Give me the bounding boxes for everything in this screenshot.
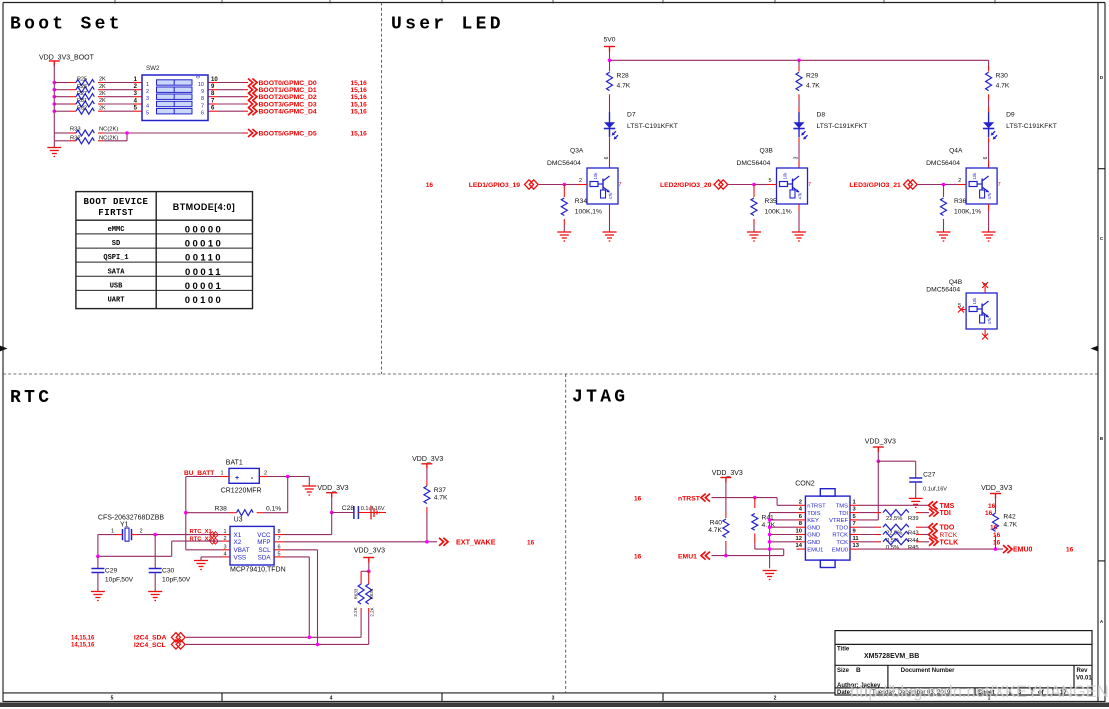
svg-text:15,16: 15,16 — [351, 130, 368, 137]
svg-text:VDD_3V3: VDD_3V3 — [712, 470, 743, 477]
svg-text:NC(2K): NC(2K) — [99, 127, 118, 133]
svg-text:10pF,50V: 10pF,50V — [162, 577, 191, 584]
svg-text:I2C4_SDA: I2C4_SDA — [134, 635, 167, 642]
ground CON2 — [763, 571, 777, 580]
node EXT_WAKE junction — [425, 540, 429, 544]
no-connect X Q4B input — [958, 307, 964, 313]
svg-text:00100: 00100 — [185, 295, 223, 306]
svg-text:VDD_3V3: VDD_3V3 — [354, 548, 385, 555]
capacitor C27 0.1uf,16V — [909, 472, 947, 493]
node C29 junction — [96, 555, 100, 559]
svg-text:11: 11 — [853, 536, 860, 542]
svg-text:47k: 47k — [798, 192, 803, 200]
svg-text:2: 2 — [579, 178, 582, 184]
CON2 right pin 5 — [850, 514, 859, 520]
wire C27 to ground — [915, 482, 917, 498]
svg-text:Rev: Rev — [1077, 668, 1089, 674]
LED D9 LTST-C191KFKT — [983, 112, 997, 139]
node gnd bus pin8 — [768, 525, 772, 529]
wire R32 row left — [54, 140, 76, 142]
svg-text:R33: R33 — [70, 127, 81, 133]
wire R633 down to SDA — [360, 608, 362, 637]
resistor R31 2K — [76, 98, 106, 107]
wire boot row 5 to SW2 pin 5 — [98, 110, 142, 112]
svg-text:DMC56404: DMC56404 — [926, 287, 960, 294]
resistor R45 0,5% — [876, 539, 921, 551]
svg-text:10k: 10k — [783, 172, 788, 180]
svg-text:EXT_WAKE: EXT_WAKE — [456, 537, 496, 546]
CON2 left pin 10 — [796, 529, 806, 535]
CON2 right pin 11 — [850, 536, 859, 542]
svg-text:16: 16 — [993, 540, 1001, 547]
svg-text:7: 7 — [619, 182, 622, 188]
svg-text:2K: 2K — [99, 84, 106, 90]
svg-text:4.7K: 4.7K — [708, 527, 722, 534]
svg-text:16: 16 — [426, 182, 434, 189]
svg-text:47k: 47k — [608, 192, 613, 200]
wire 5V0 rail — [610, 59, 989, 61]
svg-text:LED1/GPIO3_19: LED1/GPIO3_19 — [469, 182, 521, 189]
battery BAT1 CR1220MFR — [220, 460, 267, 495]
CON2 left pin 6 — [797, 514, 806, 520]
port arrow TDO — [929, 523, 938, 531]
wire boot row 1 to SW2 pin 1 — [98, 82, 142, 84]
resistor R27 2K — [76, 91, 106, 100]
wire SCL right — [274, 550, 317, 645]
svg-text:1: 1 — [111, 529, 114, 535]
port arrow BOOT2/GPMC_D2 — [248, 93, 257, 101]
svg-text:TDIS: TDIS — [807, 511, 820, 517]
svg-text:LTST-C191KFKT: LTST-C191KFKT — [817, 123, 868, 130]
svg-text:2: 2 — [958, 178, 961, 184]
svg-text:6: 6 — [983, 156, 989, 159]
wire TCLK row left — [859, 541, 877, 543]
svg-text:4: 4 — [330, 696, 333, 702]
wire nTRST to CON2 pin2 — [712, 498, 797, 506]
svg-text:LED3/GPIO3_21: LED3/GPIO3_21 — [849, 182, 901, 189]
svg-text:15,16: 15,16 — [351, 87, 368, 94]
wire C29 node down — [97, 556, 99, 568]
resistor R37 4.7K — [424, 486, 448, 504]
wire Q3A emitter to ground — [609, 204, 611, 232]
wire C28 right — [358, 512, 386, 514]
node EMU0 junction — [994, 547, 998, 551]
port arrow TMS — [929, 501, 938, 509]
label D7 — [627, 112, 678, 130]
svg-text:DMC56404: DMC56404 — [926, 160, 960, 167]
wire Q4B stub top — [984, 287, 986, 294]
svg-text:EMU1: EMU1 — [678, 553, 697, 560]
svg-text:100K,1%: 100K,1% — [575, 209, 602, 216]
resistor R44 0,5% — [876, 532, 921, 544]
section divider vertical RTC/JTAG — [565, 374, 567, 693]
power VDD_3V3 (I2C pullups) — [354, 548, 385, 563]
port diamond LED2/GPIO3_20 — [714, 180, 728, 189]
node junction boot row 4 — [53, 102, 57, 106]
LED D8 LTST-C191KFKT — [793, 112, 807, 139]
svg-text:Q4A: Q4A — [949, 148, 963, 155]
wire LED2/GPIO3_20 to Q3B — [729, 184, 777, 186]
power VDD_3V3 (R40) — [712, 470, 743, 483]
svg-text:0: 0 — [194, 76, 200, 79]
node SDA junction — [308, 636, 312, 640]
svg-text:MFP: MFP — [257, 539, 270, 546]
power 5V0 — [604, 37, 616, 52]
title block — [835, 631, 1092, 695]
wire boot row 3 to SW2 pin 3 — [98, 96, 142, 98]
wire pullup tops — [361, 570, 369, 572]
wire R40 to EMU1 line — [725, 541, 727, 556]
CON2 left pin 12 — [796, 536, 806, 542]
svg-text:R28: R28 — [617, 73, 630, 80]
svg-text:Title: Title — [837, 647, 850, 653]
svg-text:15,16: 15,16 — [351, 109, 368, 116]
svg-text:R634: R634 — [369, 588, 374, 599]
svg-text:nTRST: nTRST — [807, 504, 826, 510]
node C28 junction — [330, 511, 334, 515]
border arrow right — [1091, 346, 1099, 352]
label D8 — [817, 112, 868, 130]
wire R42 to EMU0 — [995, 535, 997, 549]
svg-text:10: 10 — [796, 529, 802, 535]
wire R33 to BOOT5 — [98, 132, 248, 134]
svg-text:15,16: 15,16 — [351, 80, 368, 87]
svg-text:6: 6 — [201, 111, 204, 117]
wire VDD to R42 — [995, 499, 997, 513]
wire boot row 3 left — [54, 96, 76, 98]
CON2 right pin 3 — [850, 507, 859, 513]
ground under Q3A — [603, 232, 617, 241]
wire I2C4_SCL — [186, 643, 369, 645]
svg-text:10k: 10k — [593, 172, 598, 180]
border arrow left — [0, 346, 8, 352]
CON2 left pin 2 — [797, 499, 806, 505]
wire R29 to LED — [798, 94, 800, 112]
node nTRST/R41 junction — [753, 496, 757, 500]
svg-text:16: 16 — [1066, 547, 1074, 554]
svg-text:EMU0: EMU0 — [1013, 547, 1033, 554]
svg-text:CFS-20632768DZBB: CFS-20632768DZBB — [98, 515, 164, 522]
svg-text:5: 5 — [769, 178, 772, 184]
svg-text:CR1220MFR: CR1220MFR — [221, 488, 262, 495]
resistor R41 4.7K — [752, 498, 776, 531]
svg-text:2: 2 — [223, 536, 226, 542]
node BOOT5 junction — [125, 131, 129, 135]
ground boot set — [47, 148, 61, 157]
svg-text:R40: R40 — [710, 520, 723, 527]
transistor Q3B DMC56404 — [737, 148, 808, 205]
svg-text:00001: 00001 — [185, 281, 223, 292]
svg-text:13: 13 — [853, 543, 860, 549]
svg-text:DMC56404: DMC56404 — [737, 160, 771, 167]
ground rotated C28 — [371, 506, 380, 520]
svg-text:14,15,16: 14,15,16 — [71, 643, 95, 649]
node junction LED1/GPIO3_19 — [563, 183, 567, 187]
resistor R38 0,1% — [215, 506, 282, 516]
wire gnd bus to pin12 — [770, 541, 797, 543]
net label RTC_X2 — [190, 537, 219, 545]
port diamond I2C4_SDA — [171, 633, 185, 642]
wire VDD_3V3 to C28 node — [331, 498, 333, 513]
port arrow RTCK — [929, 531, 938, 539]
svg-text:C29: C29 — [105, 568, 118, 575]
svg-text:4.7K: 4.7K — [996, 83, 1010, 90]
svg-text:10k: 10k — [972, 297, 977, 305]
svg-text:16: 16 — [634, 553, 642, 560]
svg-text:00110: 00110 — [185, 253, 223, 264]
svg-text:CON2: CON2 — [795, 480, 815, 487]
wire to RTC ground — [308, 477, 310, 487]
svg-text:RTCK: RTCK — [940, 532, 958, 539]
wire SDA right — [274, 557, 309, 637]
wire R30 to LED — [988, 94, 990, 112]
CON2 right pin 13 — [850, 543, 860, 549]
wire VCC up to C28 node — [274, 513, 332, 535]
label D9 — [1006, 112, 1057, 130]
svg-text:R37: R37 — [434, 487, 447, 494]
svg-text:TDO: TDO — [836, 525, 849, 531]
wire 5V0 to rail — [609, 51, 611, 60]
ground bus CON2 — [770, 513, 797, 569]
CON2 left pin 8 — [797, 521, 806, 527]
svg-text:FIRTST: FIRTST — [98, 208, 134, 218]
wire U3 X2 to C29 node — [98, 541, 230, 556]
resistor R633 2.2K (SDA pullup) — [353, 571, 364, 616]
svg-text:16: 16 — [988, 503, 996, 510]
svg-text:D9: D9 — [1006, 112, 1015, 119]
top border ticks — [115, 0, 995, 4]
svg-text:2K: 2K — [99, 98, 106, 104]
port diamond LED1/GPIO3_19 — [525, 180, 539, 189]
svg-text:TCLK: TCLK — [940, 539, 959, 546]
node junction boot row 2 — [53, 88, 57, 92]
svg-text:RTCK: RTCK — [832, 533, 848, 539]
svg-text:4: 4 — [146, 103, 149, 109]
svg-text:2: 2 — [799, 499, 802, 505]
svg-text:C30: C30 — [162, 568, 175, 575]
svg-text:0.1uf,16V: 0.1uf,16V — [361, 506, 385, 512]
svg-text:5V0: 5V0 — [604, 37, 616, 44]
svg-text:BAT1: BAT1 — [226, 460, 243, 467]
svg-text:14: 14 — [796, 543, 803, 549]
svg-text:2K: 2K — [99, 77, 106, 83]
svg-text:R27: R27 — [77, 91, 87, 97]
svg-text:VDD_3V3: VDD_3V3 — [865, 439, 896, 446]
wire VDD to VTREF node — [877, 452, 879, 461]
svg-text:MCP79410,TFDN: MCP79410,TFDN — [230, 567, 286, 574]
svg-text:D7: D7 — [627, 112, 636, 119]
port arrow nTRST — [701, 494, 710, 502]
svg-text:BOOT1/GPMC_D1: BOOT1/GPMC_D1 — [259, 87, 317, 94]
node gnd bus pin14row — [768, 547, 772, 551]
wire boot row 1 left — [54, 82, 76, 84]
port arrow TCLK — [929, 538, 938, 546]
crystal Y1 CFS-20632768DZBB — [98, 515, 164, 542]
wire rail to R29 — [798, 60, 800, 71]
resistor R30 4.7K — [986, 72, 1010, 90]
IC U3 MCP79410,TFDN — [223, 517, 285, 574]
power VDD_3V3 (VTREF) — [865, 439, 896, 452]
resistor R40 4.7K — [708, 519, 729, 537]
svg-text:BU_BATT: BU_BATT — [184, 470, 214, 477]
wire TDO row left — [859, 526, 877, 528]
svg-text:EMU1: EMU1 — [807, 547, 823, 553]
wire junction to R36 — [943, 185, 945, 198]
transistor Q4A DMC56404 — [926, 148, 997, 205]
node R38 left junction — [184, 511, 188, 515]
wire BAT1 pin2 to ground branch — [259, 476, 309, 478]
wire rail to R30 — [988, 60, 990, 71]
wire R35 to ground — [753, 219, 755, 232]
CON2 right pin 9 — [850, 529, 859, 535]
svg-text:GND: GND — [807, 540, 820, 546]
node rail junction 1 — [608, 59, 612, 63]
power VDD_3V3 (C28) — [317, 485, 348, 498]
svg-text:SD: SD — [112, 240, 120, 248]
svg-text:100K,1%: 100K,1% — [765, 209, 792, 216]
svg-text:BOOT3/GPMC_D3: BOOT3/GPMC_D3 — [259, 101, 317, 108]
wire C30 to ground — [154, 573, 156, 592]
node gnd bus pin10 — [768, 533, 772, 537]
svg-text:R32: R32 — [70, 135, 81, 141]
node VTREF junction — [877, 459, 881, 463]
svg-text:16: 16 — [634, 496, 642, 503]
port arrow EMU1 — [701, 552, 710, 560]
node EMU1/R40 junction — [724, 554, 728, 558]
svg-text:VBAT: VBAT — [234, 547, 250, 554]
svg-text:UART: UART — [108, 297, 125, 305]
ground C30 — [148, 592, 162, 601]
svg-text:VDD_3V3: VDD_3V3 — [981, 485, 1012, 492]
svg-text:R36: R36 — [954, 198, 967, 205]
wire RTCK row left — [859, 534, 877, 536]
svg-text:0,1%: 0,1% — [266, 506, 281, 513]
resistor R32 NC(2K) — [70, 135, 118, 144]
resistor R35 100K,1% — [751, 198, 792, 216]
svg-text:DMC56404: DMC56404 — [547, 160, 581, 167]
node junction LED2/GPIO3_20 — [752, 183, 756, 187]
resistor R25 2K — [76, 77, 106, 86]
svg-text:7: 7 — [201, 103, 204, 109]
svg-text:TMS: TMS — [836, 504, 848, 510]
svg-text:R32: R32 — [77, 105, 87, 111]
wire BU_BATT to BAT1 pin1 — [186, 476, 229, 478]
port arrow EXT_WAKE — [439, 538, 448, 546]
svg-text:USB: USB — [110, 283, 123, 291]
transistor Q4B DMC56404 (unused) — [926, 279, 997, 329]
wire R37 to EXT_WAKE — [426, 507, 428, 542]
svg-text:R633: R633 — [354, 588, 359, 599]
svg-text:B: B — [856, 667, 861, 674]
wire Q4B stub bottom — [984, 329, 986, 336]
wire TMS row — [859, 504, 929, 506]
svg-text:D8: D8 — [817, 112, 826, 119]
node junction boot row 3 — [53, 95, 57, 99]
capacitor C30 10pF,50V — [149, 568, 191, 584]
wire LED to Q4A — [988, 138, 990, 169]
node SCL junction — [316, 643, 320, 647]
svg-text:2: 2 — [774, 696, 777, 702]
svg-text:3: 3 — [552, 696, 555, 702]
wire boot row 2 to SW2 pin 2 — [98, 89, 142, 91]
svg-text:16: 16 — [993, 532, 1001, 539]
svg-text:2.2K: 2.2K — [353, 607, 358, 616]
svg-text:SDA: SDA — [258, 554, 272, 561]
CON2 right pin 7 — [850, 521, 859, 527]
wire Q4B stub left — [961, 309, 966, 311]
wire junction to R34 — [563, 185, 565, 198]
svg-text:LTST-C191KFKT: LTST-C191KFKT — [627, 123, 678, 130]
wire R33 row left — [54, 132, 76, 134]
node gnd bus pin12 — [768, 540, 772, 544]
wire boot row 2 left — [54, 89, 76, 91]
svg-text:8: 8 — [201, 96, 204, 102]
wire VDD_3V3 to R37 — [426, 469, 428, 486]
ground C27 — [909, 498, 923, 507]
CON2 left pin 4 — [797, 507, 806, 513]
svg-text:RTC_X1: RTC_X1 — [190, 529, 213, 535]
wire VTREF vertical — [859, 461, 879, 520]
resistor R33 NC(2K) — [70, 127, 118, 137]
wire VTREF node to C27 — [878, 461, 915, 478]
svg-text:BTMODE[4:0]: BTMODE[4:0] — [173, 202, 235, 212]
wire R38 left — [186, 512, 237, 514]
wire R38 right up to BAT node — [257, 477, 288, 513]
svg-text:BOOT2/GPMC_D2: BOOT2/GPMC_D2 — [259, 94, 317, 101]
svg-text:R43: R43 — [908, 531, 919, 537]
wire LED1/GPIO3_19 to Q3A — [539, 184, 587, 186]
svg-text:SCL: SCL — [258, 547, 271, 554]
ground under R36 — [937, 232, 951, 241]
svg-text:nTRST: nTRST — [678, 496, 701, 503]
wire TDI row right — [921, 512, 929, 514]
svg-text:00010: 00010 — [185, 239, 223, 250]
wire R634 down to SCL — [368, 608, 370, 644]
svg-text:00011: 00011 — [185, 267, 223, 278]
power VDD_3V3 (R37) — [412, 456, 443, 469]
ground under Q4A — [982, 232, 996, 241]
svg-text:9: 9 — [201, 89, 204, 95]
svg-text:TCK: TCK — [836, 540, 848, 546]
svg-text:VDD_3V3_BOOT: VDD_3V3_BOOT — [39, 55, 95, 62]
svg-text:4.7K: 4.7K — [1003, 521, 1017, 528]
wire EMU1 to CON2 pin14 — [712, 549, 784, 556]
ground BAT1 — [302, 486, 316, 495]
LED D7 LTST-C191KFKT — [604, 112, 618, 139]
svg-text:V0.01: V0.01 — [1076, 676, 1092, 682]
wire gnd bus to pin8 — [770, 526, 797, 528]
section divider vertical Boot/UserLED — [381, 3, 383, 375]
svg-text:1: 1 — [146, 82, 149, 88]
svg-text:Q3B: Q3B — [760, 148, 774, 155]
wire LED3/GPIO3_21 to Q4A — [918, 184, 966, 186]
wire Q3B emitter to ground — [798, 204, 800, 232]
svg-text:15,16: 15,16 — [351, 94, 368, 101]
wire VDD_3V3_BOOT vertical bus — [53, 64, 55, 141]
svg-text:R42: R42 — [1003, 513, 1016, 520]
svg-text:User LED: User LED — [391, 15, 504, 35]
svg-text:R39: R39 — [908, 516, 919, 522]
wire boot row 4 to SW2 pin 4 — [98, 103, 142, 105]
resistor R39 22,5% — [876, 510, 921, 522]
svg-text:SW2: SW2 — [146, 65, 160, 72]
svg-text:VDD_3V3: VDD_3V3 — [412, 456, 443, 463]
svg-text:U3: U3 — [234, 517, 243, 524]
svg-text:R34: R34 — [575, 198, 588, 205]
svg-text:R26: R26 — [77, 84, 87, 90]
svg-text:TDI: TDI — [839, 511, 849, 517]
wire NC rows vertical — [53, 141, 55, 148]
